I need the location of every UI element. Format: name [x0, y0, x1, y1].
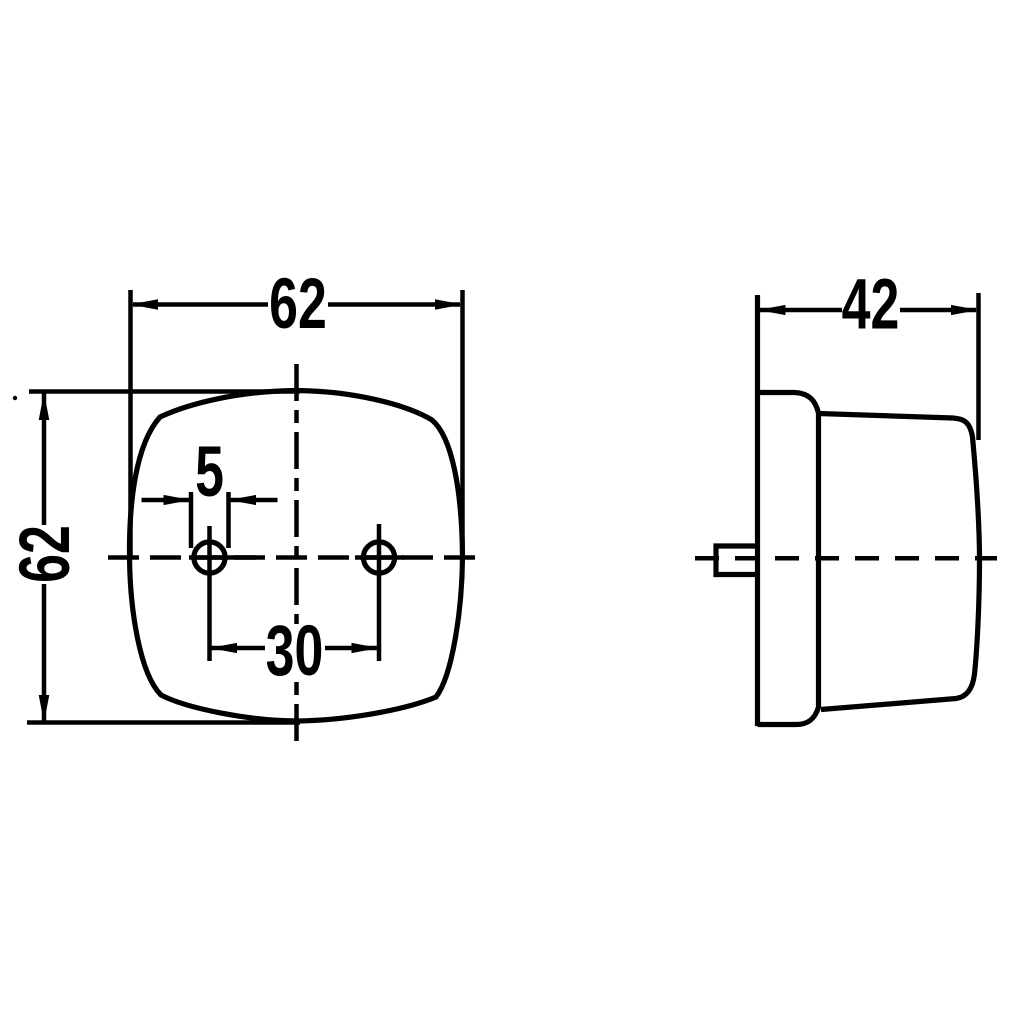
svg-text:62: 62 — [6, 525, 85, 583]
hole left — [194, 542, 225, 573]
hole left center line — [207, 526, 212, 661]
dimension 62 vertical: dimension line — [42, 394, 47, 722]
dimension 62 vertical: extension line top — [29, 389, 300, 394]
dimension 30: arrow left — [210, 643, 238, 653]
dimension 5: dimension line tails — [142, 498, 278, 503]
dimension 62 vertical: arrow bottom — [39, 695, 50, 723]
dimension 5: extension line right — [226, 492, 231, 548]
side view: lens body — [819, 414, 980, 710]
dimension 42: dimension line — [760, 308, 976, 313]
side view: connector tab — [716, 546, 758, 575]
svg-text:62: 62 — [269, 265, 327, 344]
dimension 62 horizontal: dimension line — [133, 302, 460, 307]
dimension 5: arrow right (points left, tip at right ext) — [229, 495, 257, 505]
side view: horizontal center line — [695, 556, 997, 561]
dimension 62 horizontal: arrow right — [435, 299, 463, 310]
hole right — [363, 542, 394, 573]
dimension 42: arrow left — [758, 305, 786, 315]
dimension 30: label backing — [265, 624, 325, 679]
dimension 30: arrow right — [352, 643, 380, 653]
hole right center line — [377, 524, 382, 661]
side view: mounting plate — [755, 295, 760, 726]
hole right horizontal tick — [355, 555, 404, 560]
dimension 62 horizontal: extension line left — [128, 290, 133, 557]
dimension 62 vertical: extension line bottom — [27, 720, 300, 725]
svg-text:5: 5 — [195, 433, 224, 512]
lamp body front-view outline — [129, 391, 462, 722]
dimension 30: dimension line — [210, 646, 380, 651]
dimension 42: extension line right — [976, 293, 981, 440]
hole left horizontal tick — [189, 555, 256, 560]
vertical center line — [294, 364, 299, 745]
svg-text:30: 30 — [266, 612, 324, 691]
dimension 42: arrow right — [951, 305, 979, 315]
dimension 62 horizontal: arrow left — [131, 299, 159, 310]
dimension 5: extension line left — [189, 492, 194, 548]
dimension 5: arrow left (points right, tip at left ext) — [164, 495, 192, 505]
dimension 62 horizontal: extension line right — [460, 290, 465, 557]
dimension 62 vertical: arrow top — [39, 393, 50, 421]
horizontal center line through holes — [108, 555, 477, 560]
stray scan dot — [13, 396, 17, 400]
svg-text:42: 42 — [842, 266, 900, 345]
